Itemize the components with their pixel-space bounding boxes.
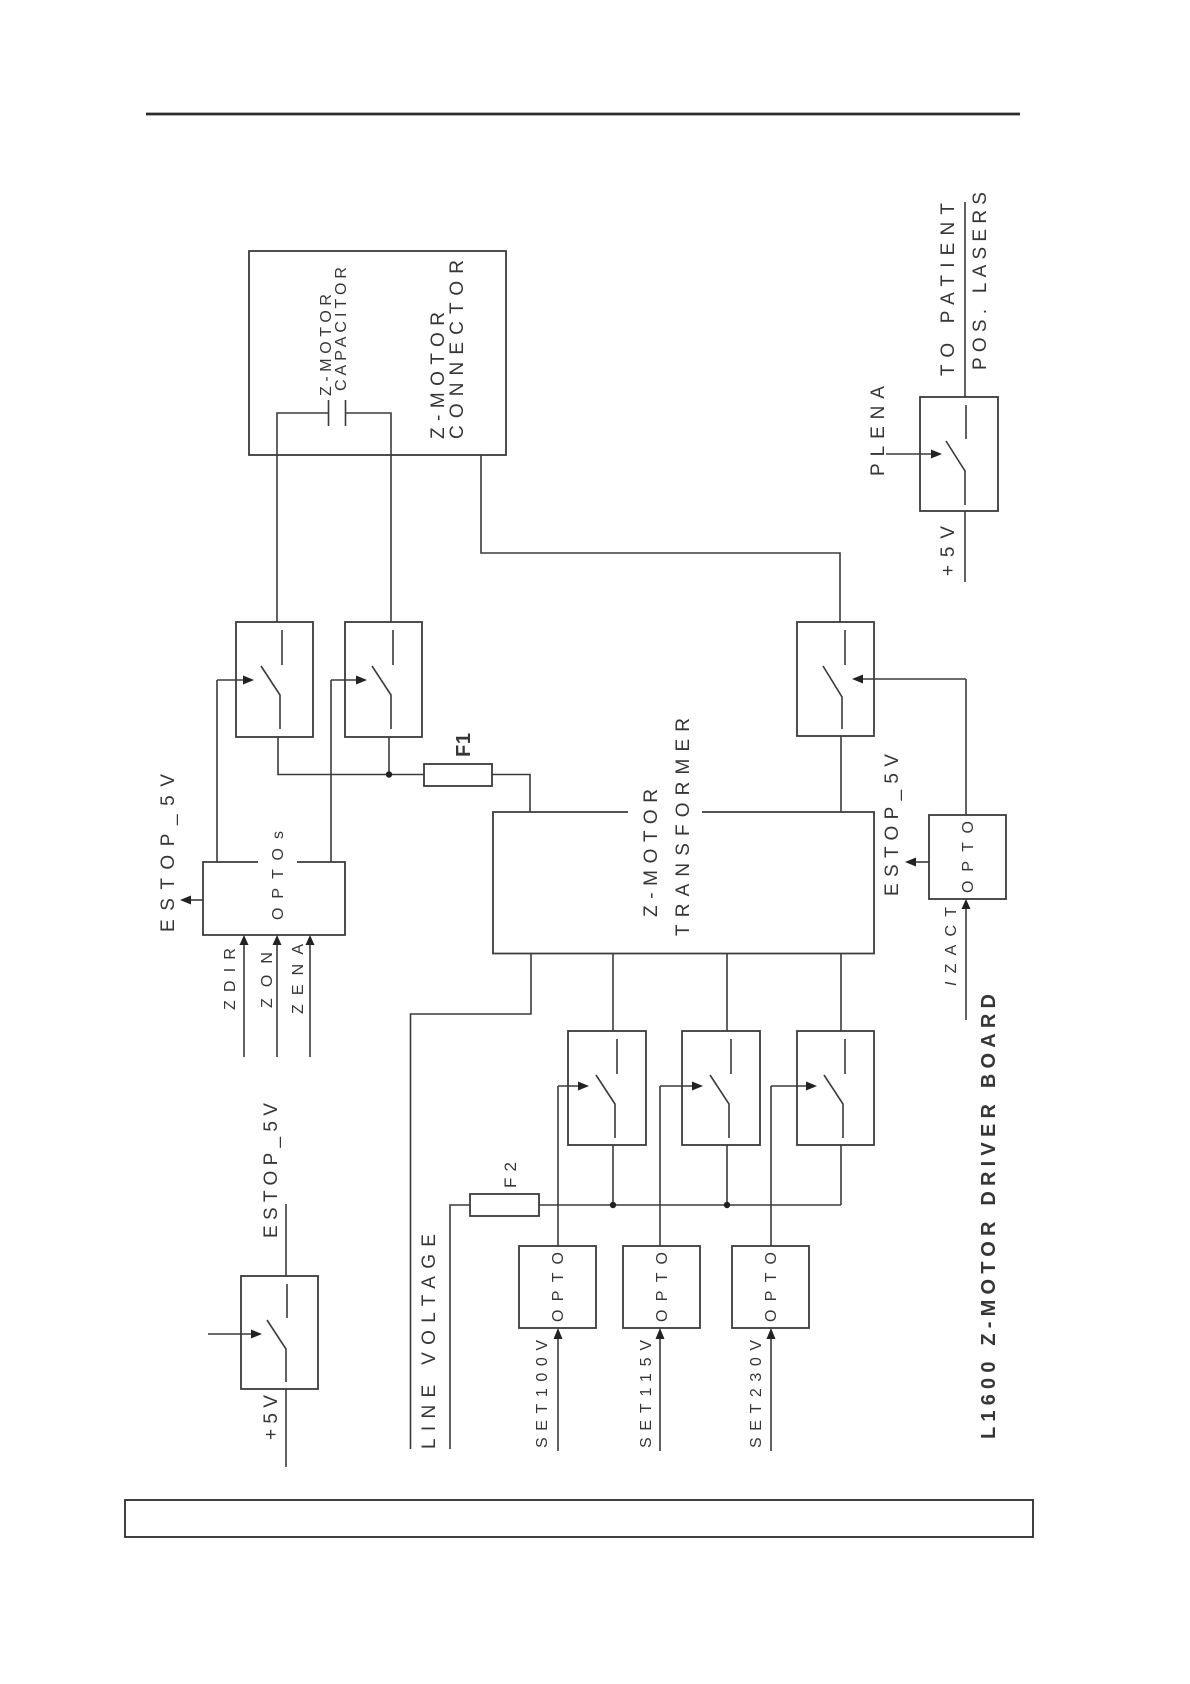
wire transformer to relay K4	[726, 954, 728, 1032]
wire transformer to relay K3	[612, 954, 614, 1032]
wire K3 output to bus	[612, 1145, 614, 1205]
fuse F1	[424, 764, 492, 786]
relay K7 PLENA	[886, 397, 998, 511]
relay K6	[797, 622, 966, 736]
relay K2	[331, 622, 422, 737]
bus wire	[539, 1204, 841, 1206]
wire K4 output to bus	[726, 1145, 728, 1205]
wire K7 to patient pos lasers	[964, 202, 966, 397]
wire +5V to K7	[964, 511, 966, 582]
wire K8 to +5V	[285, 1389, 287, 1467]
wire K4 coil to OPTO U2	[659, 1086, 661, 1246]
wire F1 to transformer	[492, 775, 530, 813]
wire K5 coil to OPTO U3	[770, 1086, 772, 1246]
svg-text:CAPACITOR: CAPACITOR	[333, 267, 350, 391]
signal SET115V arrow	[659, 1338, 661, 1451]
opto U4	[929, 815, 1006, 899]
relay K8	[208, 1276, 318, 1389]
wire transformer to relay K5	[840, 954, 842, 1032]
wire K1 coil to OPTOs	[216, 680, 218, 862]
wire F2 to line voltage	[450, 1205, 470, 1449]
signal ZON arrow	[276, 944, 278, 1057]
wire ESTOP_5V to K8	[285, 1204, 287, 1276]
footer box	[125, 1500, 1033, 1537]
svg-text:L1600 Z-MOTOR DRIVER BOARD: L1600 Z-MOTOR DRIVER BOARD	[978, 994, 1000, 1439]
signal ZDIR arrow	[243, 944, 245, 1057]
opto U3	[732, 1246, 809, 1328]
relay K5	[771, 1031, 874, 1145]
junction dot	[724, 1202, 730, 1208]
opto U1	[519, 1246, 596, 1328]
opto U2	[623, 1246, 700, 1328]
svg-text:CONNECTOR: CONNECTOR	[447, 260, 468, 439]
svg-text:+5V: +5V	[261, 1395, 282, 1440]
capacitor C1 Z-MOTOR CAPACITOR	[329, 400, 346, 426]
wire K2 coil to OPTOs	[330, 680, 332, 862]
svg-text:+5V: +5V	[938, 526, 959, 576]
signal ZENA arrow	[309, 944, 311, 1057]
wire capacitor right lead to relay K2	[346, 413, 392, 622]
Z-MOTOR CONNECTOR box	[249, 251, 506, 455]
svg-text:LINE VOLTAGE: LINE VOLTAGE	[419, 1234, 440, 1449]
svg-text:F1: F1	[453, 733, 475, 757]
wire K3 coil to OPTO U1	[557, 1086, 559, 1246]
relay K3	[558, 1031, 646, 1145]
relay K4	[660, 1031, 760, 1145]
header rule	[146, 113, 1020, 116]
Z-MOTOR TRANSFORMER box	[493, 812, 874, 954]
arrow ESTOP_5V out of opto U4	[916, 861, 929, 863]
wire K1 output to junction	[278, 737, 424, 775]
wire transformer to line voltage	[411, 954, 532, 1450]
relay K1	[217, 622, 313, 737]
wire connector output to relay K6	[481, 455, 840, 622]
fuse F2	[470, 1194, 539, 1216]
OPTOs box	[203, 862, 345, 935]
signal IZACT arrow	[965, 908, 967, 1020]
wire K6 to transformer	[840, 736, 842, 812]
junction dot	[610, 1202, 616, 1208]
signal SET100V arrow	[557, 1338, 559, 1451]
wire K5 output to bus	[840, 1145, 842, 1205]
signal SET230V arrow	[770, 1338, 772, 1451]
wire K2 output to junction	[388, 737, 390, 775]
wire K6 coil to OPTO U4	[965, 679, 967, 815]
wire capacitor left lead to relay K1	[277, 413, 329, 622]
svg-text:ZON: ZON	[259, 952, 276, 1008]
junction dot	[386, 771, 392, 777]
arrow ESTOP_5V out of OPTOs	[191, 899, 203, 901]
